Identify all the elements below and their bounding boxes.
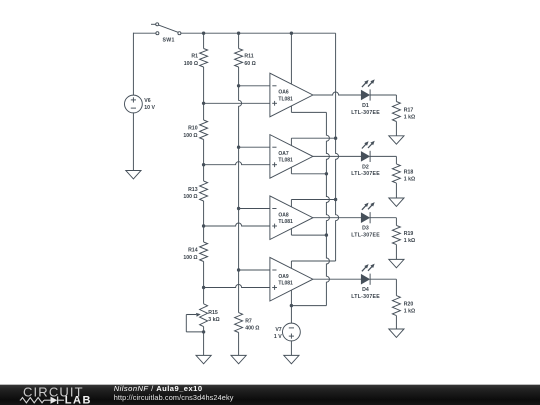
svg-text:OA6: OA6 xyxy=(278,90,289,96)
svg-text:R17: R17 xyxy=(404,107,414,113)
svg-text:1 kΩ: 1 kΩ xyxy=(404,238,415,244)
svg-text:LTL-307EE: LTL-307EE xyxy=(351,294,380,300)
svg-text:R20: R20 xyxy=(404,302,414,308)
svg-text:R15: R15 xyxy=(208,310,218,316)
svg-text:1 V: 1 V xyxy=(274,334,282,340)
svg-text:http://circuitlab.com/cns3d4hs: http://circuitlab.com/cns3d4hs24eky xyxy=(114,393,234,402)
svg-text:V7: V7 xyxy=(275,327,281,333)
svg-text:D4: D4 xyxy=(362,287,369,293)
svg-text:LTL-307EE: LTL-307EE xyxy=(351,233,380,239)
svg-text:R18: R18 xyxy=(404,169,414,175)
svg-text:60 Ω: 60 Ω xyxy=(244,61,255,67)
svg-text:1 kΩ: 1 kΩ xyxy=(404,309,415,315)
svg-text:R13: R13 xyxy=(188,187,198,193)
svg-text:100 Ω: 100 Ω xyxy=(183,133,197,139)
svg-text:V6: V6 xyxy=(144,98,150,104)
svg-text:OA7: OA7 xyxy=(278,151,289,157)
svg-text:R19: R19 xyxy=(404,231,414,237)
svg-text:3 kΩ: 3 kΩ xyxy=(208,317,219,323)
svg-text:100 Ω: 100 Ω xyxy=(183,255,197,261)
svg-text:R1: R1 xyxy=(191,54,198,60)
svg-text:100 Ω: 100 Ω xyxy=(183,194,197,200)
svg-text:D2: D2 xyxy=(362,164,369,170)
svg-text:TL081: TL081 xyxy=(278,281,293,287)
svg-text:10 V: 10 V xyxy=(144,105,155,111)
svg-text:SW1: SW1 xyxy=(163,38,175,44)
svg-text:LTL-307EE: LTL-307EE xyxy=(351,110,380,116)
svg-text:D1: D1 xyxy=(362,103,369,109)
svg-text:100 Ω: 100 Ω xyxy=(184,61,198,67)
svg-text:TL081: TL081 xyxy=(278,219,293,225)
svg-text:R10: R10 xyxy=(188,126,198,132)
svg-text:TL081: TL081 xyxy=(278,158,293,164)
svg-text:LTL-307EE: LTL-307EE xyxy=(351,171,380,177)
svg-text:R7: R7 xyxy=(245,319,252,325)
svg-text:1 kΩ: 1 kΩ xyxy=(404,115,415,121)
svg-text:OA9: OA9 xyxy=(278,274,289,280)
svg-text:OA8: OA8 xyxy=(278,212,289,218)
svg-text:D3: D3 xyxy=(362,226,369,232)
svg-text:1 kΩ: 1 kΩ xyxy=(404,177,415,183)
svg-text:400 Ω: 400 Ω xyxy=(245,326,259,332)
svg-text:TL081: TL081 xyxy=(278,96,293,102)
svg-text:R14: R14 xyxy=(188,248,198,254)
svg-text:R11: R11 xyxy=(244,54,253,60)
svg-text:LAB: LAB xyxy=(65,395,92,405)
